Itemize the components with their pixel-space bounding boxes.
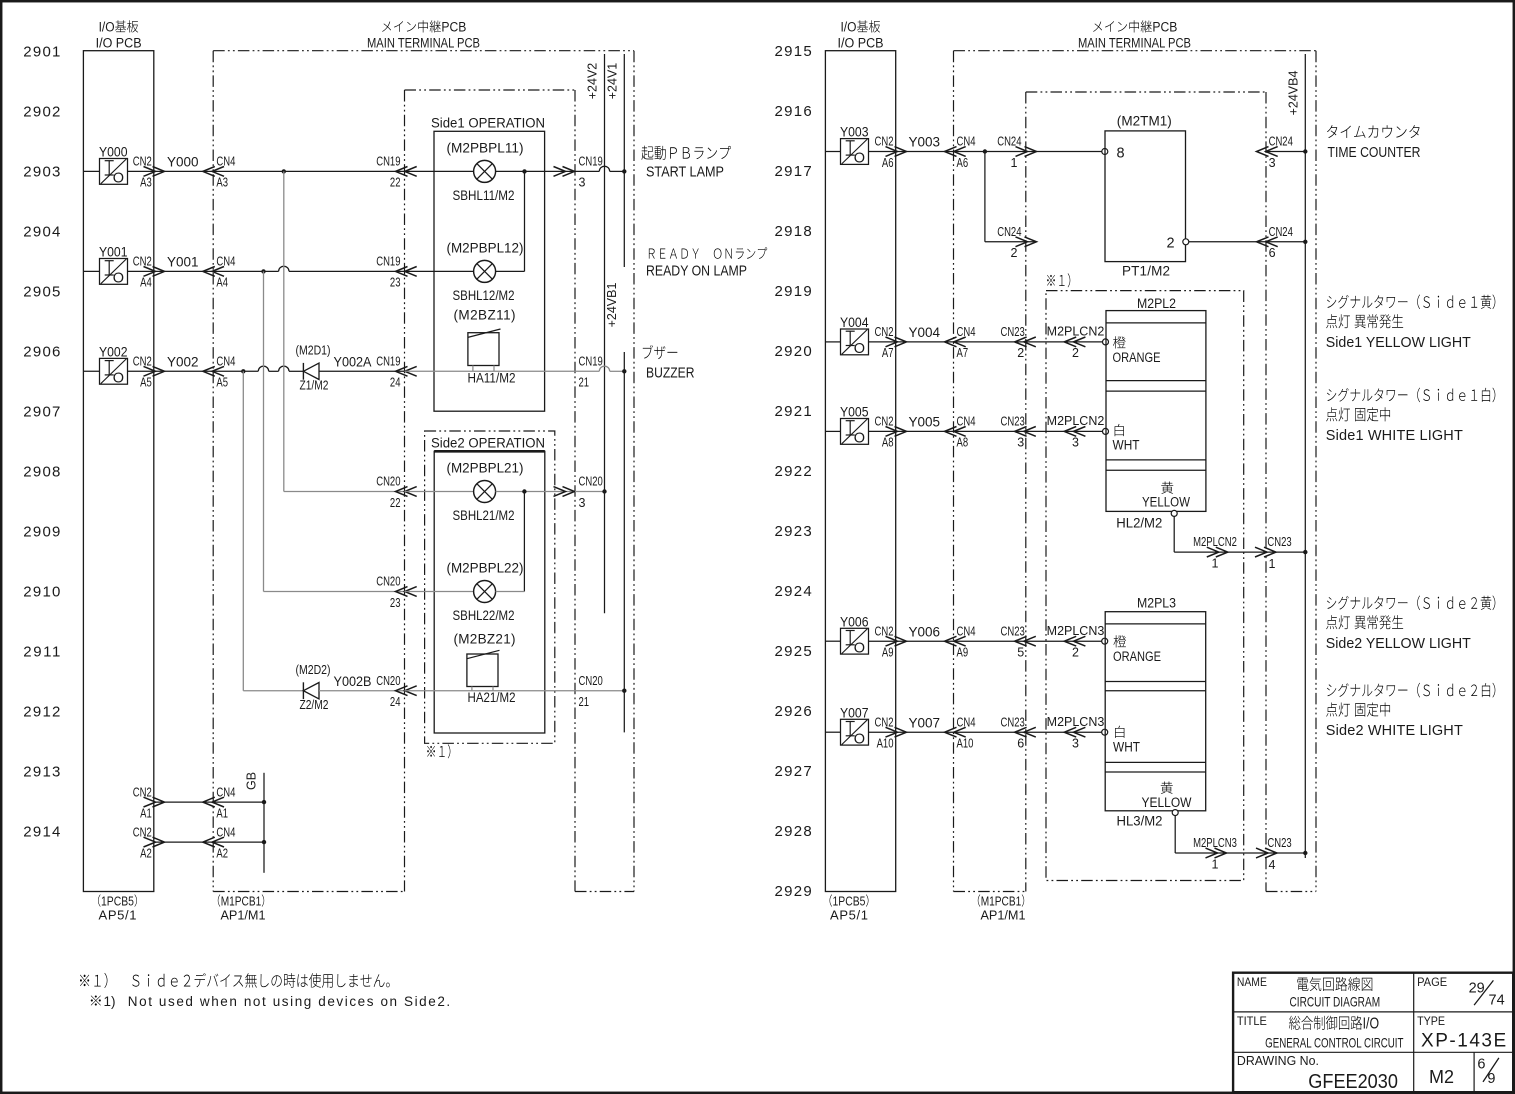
svg-text:1PCB5: 1PCB5 <box>101 894 134 909</box>
svg-text:HL2/M2: HL2/M2 <box>1116 515 1162 530</box>
svg-text:Y006: Y006 <box>909 624 941 639</box>
svg-text:CN23: CN23 <box>1001 325 1025 339</box>
svg-text:PCB: PCB <box>441 20 466 35</box>
svg-text:24: 24 <box>390 376 401 390</box>
svg-text:A5: A5 <box>140 376 152 390</box>
svg-text:CN4: CN4 <box>957 135 976 149</box>
svg-text:CN23: CN23 <box>1001 715 1025 729</box>
svg-text:CN4: CN4 <box>957 325 976 339</box>
svg-text:O: O <box>854 431 865 447</box>
svg-text:Y001: Y001 <box>99 245 128 260</box>
svg-text:2: 2 <box>1011 246 1018 260</box>
svg-text:1PCB5: 1PCB5 <box>833 894 866 909</box>
svg-text:GENERAL CONTROL CIRCUIT: GENERAL CONTROL CIRCUIT <box>1265 1034 1404 1050</box>
svg-text:M2: M2 <box>1429 1067 1454 1087</box>
svg-text:Side2 OPERATION: Side2 OPERATION <box>431 436 545 451</box>
svg-text:NAME: NAME <box>1237 977 1267 989</box>
svg-text:CN23: CN23 <box>1001 415 1025 429</box>
svg-text:Side2 YELLOW LIGHT: Side2 YELLOW LIGHT <box>1326 636 1471 652</box>
svg-text:24: 24 <box>390 695 401 709</box>
svg-text:2929: 2929 <box>775 883 812 900</box>
svg-text:A6: A6 <box>882 156 894 170</box>
svg-text:2917: 2917 <box>775 163 812 180</box>
svg-text:A2: A2 <box>216 846 228 860</box>
svg-text:22: 22 <box>390 496 401 510</box>
svg-text:A7: A7 <box>957 346 969 360</box>
svg-text:2927: 2927 <box>775 763 812 780</box>
svg-text:Y005: Y005 <box>840 405 869 420</box>
svg-text:BUZZER: BUZZER <box>646 365 695 381</box>
svg-text:(M2PBPL11): (M2PBPL11) <box>447 140 524 155</box>
svg-text:Y003: Y003 <box>909 135 941 150</box>
svg-text:DRAWING No.: DRAWING No. <box>1237 1054 1319 1068</box>
svg-text:WHT: WHT <box>1113 438 1140 453</box>
svg-text:2: 2 <box>1167 235 1175 251</box>
svg-text:I/O: I/O <box>1363 1016 1379 1033</box>
svg-text:O: O <box>854 640 865 656</box>
svg-text:SBHL21/M2: SBHL21/M2 <box>453 508 515 523</box>
svg-text:Y007: Y007 <box>909 715 941 730</box>
svg-text:1: 1 <box>1269 557 1276 571</box>
svg-text:2: 2 <box>1017 346 1024 360</box>
svg-text:(M2D2): (M2D2) <box>296 663 331 677</box>
svg-text:2920: 2920 <box>775 343 812 360</box>
svg-text:CN4: CN4 <box>216 355 235 369</box>
svg-text:READY ON LAMP: READY ON LAMP <box>646 264 747 280</box>
svg-text:CN19: CN19 <box>579 155 603 169</box>
svg-text:6: 6 <box>1477 1057 1485 1073</box>
svg-text:CN2: CN2 <box>874 135 893 149</box>
svg-text:CN24: CN24 <box>997 225 1021 239</box>
svg-text:74: 74 <box>1489 993 1505 1009</box>
svg-text:Y006: Y006 <box>840 614 869 629</box>
svg-text:Y002B: Y002B <box>334 674 372 689</box>
svg-text:A4: A4 <box>140 276 152 290</box>
svg-text:AP5/1: AP5/1 <box>99 908 137 923</box>
svg-text:A10: A10 <box>957 737 974 751</box>
svg-text:M2PLCN3: M2PLCN3 <box>1193 836 1237 850</box>
svg-text:1: 1 <box>1212 857 1219 871</box>
svg-text:A9: A9 <box>957 646 969 660</box>
svg-text:Y000: Y000 <box>167 155 199 170</box>
svg-text:CN2: CN2 <box>133 155 152 169</box>
svg-text:GB: GB <box>245 772 259 790</box>
svg-text:(M2D1): (M2D1) <box>296 344 331 358</box>
svg-text:AP5/1: AP5/1 <box>830 908 868 923</box>
svg-text:CN24: CN24 <box>1269 225 1293 239</box>
svg-text:9: 9 <box>1487 1071 1495 1087</box>
svg-text:Y005: Y005 <box>909 415 941 430</box>
svg-text:2915: 2915 <box>775 43 812 60</box>
svg-text:I/O PCB: I/O PCB <box>96 36 142 51</box>
svg-text:CN2: CN2 <box>874 415 893 429</box>
svg-text:2921: 2921 <box>775 403 812 420</box>
svg-text:2912: 2912 <box>23 704 60 721</box>
svg-text:2914: 2914 <box>23 824 60 841</box>
svg-text:M2PLCN2: M2PLCN2 <box>1193 535 1237 549</box>
svg-text:CN24: CN24 <box>997 135 1021 149</box>
svg-text:CN23: CN23 <box>1001 624 1025 638</box>
svg-text:CIRCUIT DIAGRAM: CIRCUIT DIAGRAM <box>1290 994 1381 1010</box>
svg-text:HA21/M2: HA21/M2 <box>468 690 516 705</box>
svg-text:O: O <box>113 271 124 287</box>
svg-text:23: 23 <box>390 596 401 610</box>
svg-text:2924: 2924 <box>775 583 812 600</box>
svg-text:21: 21 <box>579 376 590 390</box>
svg-text:(M2PBPL12): (M2PBPL12) <box>447 240 524 255</box>
svg-text:PCB: PCB <box>1152 20 1177 35</box>
svg-text:+24VB4: +24VB4 <box>1287 71 1301 116</box>
svg-text:1): 1) <box>104 994 116 1009</box>
svg-text:2905: 2905 <box>23 284 60 301</box>
svg-text:CN20: CN20 <box>376 575 400 589</box>
svg-text:CN2: CN2 <box>133 355 152 369</box>
svg-text:M2PLCN3: M2PLCN3 <box>1047 715 1105 729</box>
svg-text:Side1 OPERATION: Side1 OPERATION <box>431 115 545 130</box>
svg-text:MAIN TERMINAL PCB: MAIN TERMINAL PCB <box>367 36 480 51</box>
svg-text:2918: 2918 <box>775 223 812 240</box>
svg-text:CN2: CN2 <box>874 715 893 729</box>
svg-text:A3: A3 <box>216 176 228 190</box>
svg-text:Y001: Y001 <box>167 255 199 270</box>
svg-text:O: O <box>113 171 124 187</box>
svg-text:6: 6 <box>1269 246 1276 260</box>
svg-text:Side1 WHITE LIGHT: Side1 WHITE LIGHT <box>1326 428 1463 444</box>
svg-text:Side1 YELLOW LIGHT: Side1 YELLOW LIGHT <box>1326 335 1471 351</box>
svg-text:I/O: I/O <box>99 20 115 35</box>
svg-text:Y003: Y003 <box>840 125 869 140</box>
svg-text:TYPE: TYPE <box>1417 1016 1445 1028</box>
svg-text:Y004: Y004 <box>909 325 941 340</box>
svg-text:21: 21 <box>579 695 590 709</box>
svg-text:2928: 2928 <box>775 823 812 840</box>
svg-text:2916: 2916 <box>775 103 812 120</box>
svg-text:4: 4 <box>1269 858 1276 872</box>
svg-text:2913: 2913 <box>23 764 60 781</box>
svg-text:(M2PBPL22): (M2PBPL22) <box>447 560 524 575</box>
svg-text:PT1/M2: PT1/M2 <box>1122 264 1170 279</box>
svg-text:+24V1: +24V1 <box>606 63 620 100</box>
svg-text:I/O PCB: I/O PCB <box>838 36 884 51</box>
svg-text:CN19: CN19 <box>376 155 400 169</box>
svg-text:CN2: CN2 <box>133 825 152 839</box>
svg-text:2925: 2925 <box>775 643 812 660</box>
svg-text:2901: 2901 <box>23 44 60 61</box>
svg-text:M2PL3: M2PL3 <box>1137 594 1176 610</box>
svg-text:CN19: CN19 <box>579 355 603 369</box>
svg-text:SBHL22/M2: SBHL22/M2 <box>453 608 515 623</box>
svg-text:ORANGE: ORANGE <box>1113 350 1161 365</box>
svg-text:(M2BZ21): (M2BZ21) <box>454 632 516 647</box>
svg-text:2910: 2910 <box>23 584 60 601</box>
svg-text:A6: A6 <box>957 156 969 170</box>
svg-text:Y007: Y007 <box>840 705 869 720</box>
svg-text:CN23: CN23 <box>1267 535 1291 549</box>
svg-text:2923: 2923 <box>775 523 812 540</box>
svg-text:CN4: CN4 <box>957 715 976 729</box>
svg-text:(M2BZ11): (M2BZ11) <box>454 308 516 323</box>
svg-text:YELLOW: YELLOW <box>1142 494 1190 509</box>
svg-text:Y002: Y002 <box>167 355 199 370</box>
svg-text:2907: 2907 <box>23 404 60 421</box>
svg-text:1: 1 <box>1212 557 1219 571</box>
svg-text:A1: A1 <box>216 806 228 820</box>
svg-text:A8: A8 <box>957 436 969 450</box>
svg-text:5: 5 <box>1017 646 1024 660</box>
svg-text:O: O <box>113 371 124 387</box>
svg-text:AP1/M1: AP1/M1 <box>221 908 266 923</box>
svg-text:Y000: Y000 <box>99 145 128 160</box>
svg-text:CN2: CN2 <box>133 785 152 799</box>
svg-text:I/O: I/O <box>840 20 856 35</box>
svg-text:A8: A8 <box>882 436 894 450</box>
svg-text:O: O <box>854 151 865 167</box>
svg-text:CN4: CN4 <box>957 624 976 638</box>
svg-text:2922: 2922 <box>775 463 812 480</box>
svg-text:GFEE2030: GFEE2030 <box>1308 1070 1398 1093</box>
svg-text:CN19: CN19 <box>376 355 400 369</box>
svg-text:CN2: CN2 <box>874 624 893 638</box>
svg-text:8: 8 <box>1117 145 1125 161</box>
svg-text:M1PCB1: M1PCB1 <box>981 894 1022 909</box>
svg-text:M2PLCN2: M2PLCN2 <box>1047 414 1105 428</box>
svg-text:3: 3 <box>1269 156 1276 170</box>
svg-text:Y002A: Y002A <box>334 355 372 370</box>
svg-text:2904: 2904 <box>23 224 60 241</box>
svg-text:2909: 2909 <box>23 524 60 541</box>
svg-text:CN4: CN4 <box>216 825 235 839</box>
svg-text:CN4: CN4 <box>216 155 235 169</box>
svg-text:(M2PBPL21): (M2PBPL21) <box>447 460 524 475</box>
svg-text:CN20: CN20 <box>579 475 603 489</box>
svg-text:3: 3 <box>1072 737 1079 751</box>
svg-text:SBHL11/M2: SBHL11/M2 <box>453 188 515 203</box>
svg-text:AP1/M1: AP1/M1 <box>981 908 1026 923</box>
svg-text:3: 3 <box>579 176 586 190</box>
svg-text:M2PL2: M2PL2 <box>1137 295 1176 311</box>
svg-text:A1: A1 <box>140 806 152 820</box>
svg-text:3: 3 <box>1072 436 1079 450</box>
svg-text:HA11/M2: HA11/M2 <box>468 370 516 385</box>
svg-text:CN4: CN4 <box>216 255 235 269</box>
svg-text:ORANGE: ORANGE <box>1113 649 1161 664</box>
svg-text:2: 2 <box>1072 646 1079 660</box>
svg-text:Z1/M2: Z1/M2 <box>300 379 329 393</box>
svg-text:START LAMP: START LAMP <box>646 165 724 181</box>
svg-text:PAGE: PAGE <box>1417 977 1447 989</box>
svg-text:2903: 2903 <box>23 164 60 181</box>
svg-text:CN20: CN20 <box>376 674 400 688</box>
svg-text:MAIN TERMINAL PCB: MAIN TERMINAL PCB <box>1078 36 1191 51</box>
svg-text:Side2 WHITE LIGHT: Side2 WHITE LIGHT <box>1326 723 1463 739</box>
svg-text:+24V2: +24V2 <box>586 63 600 100</box>
svg-text:22: 22 <box>390 176 401 190</box>
svg-text:CN2: CN2 <box>133 255 152 269</box>
svg-text:23: 23 <box>390 276 401 290</box>
svg-text:2919: 2919 <box>775 283 812 300</box>
svg-text:YELLOW: YELLOW <box>1142 795 1192 810</box>
svg-text:O: O <box>854 341 865 357</box>
svg-text:A9: A9 <box>882 646 894 660</box>
svg-text:CN23: CN23 <box>1267 836 1291 850</box>
svg-text:CN24: CN24 <box>1269 135 1293 149</box>
svg-text:TIME COUNTER: TIME COUNTER <box>1328 145 1421 161</box>
svg-text:WHT: WHT <box>1113 739 1140 754</box>
svg-text:A7: A7 <box>882 346 894 360</box>
svg-text:2902: 2902 <box>23 104 60 121</box>
svg-text:M1PCB1: M1PCB1 <box>221 894 262 909</box>
svg-text:CN20: CN20 <box>376 475 400 489</box>
svg-text:HL3/M2: HL3/M2 <box>1117 814 1163 829</box>
svg-text:6: 6 <box>1017 737 1024 751</box>
svg-text:CN4: CN4 <box>216 785 235 799</box>
svg-text:O: O <box>854 731 865 747</box>
svg-text:(M2TM1): (M2TM1) <box>1117 113 1172 128</box>
svg-text:2908: 2908 <box>23 464 60 481</box>
svg-text:CN2: CN2 <box>874 325 893 339</box>
svg-text:A2: A2 <box>140 846 152 860</box>
svg-text:Y002: Y002 <box>99 344 128 359</box>
svg-text:3: 3 <box>1017 436 1024 450</box>
svg-text:TITLE: TITLE <box>1237 1016 1267 1028</box>
svg-text:M2PLCN3: M2PLCN3 <box>1047 624 1105 638</box>
svg-text:2906: 2906 <box>23 344 60 361</box>
svg-text:+24VB1: +24VB1 <box>605 283 619 328</box>
svg-text:A3: A3 <box>140 176 152 190</box>
svg-text:CN4: CN4 <box>957 415 976 429</box>
svg-text:CN19: CN19 <box>376 255 400 269</box>
svg-text:A4: A4 <box>216 276 228 290</box>
svg-text:M2PLCN2: M2PLCN2 <box>1047 325 1105 339</box>
svg-text:Y004: Y004 <box>840 315 869 330</box>
svg-text:SBHL12/M2: SBHL12/M2 <box>453 288 515 303</box>
svg-text:A5: A5 <box>216 376 228 390</box>
svg-text:Z2/M2: Z2/M2 <box>300 698 329 712</box>
svg-text:2926: 2926 <box>775 703 812 720</box>
svg-text:3: 3 <box>579 496 586 510</box>
svg-text:2: 2 <box>1072 346 1079 360</box>
svg-text:1: 1 <box>1011 156 1018 170</box>
svg-text:A10: A10 <box>877 737 894 751</box>
svg-text:CN20: CN20 <box>579 674 603 688</box>
